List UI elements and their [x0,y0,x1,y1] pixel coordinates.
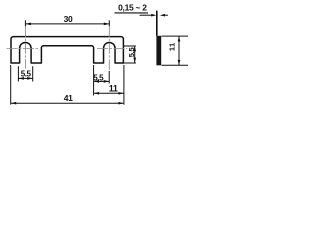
centerline vertical right slot [108,26,110,70]
centerline horizontal right slot [97,48,127,50]
dimension 5.5 (right foot, step to slot centre) [93,65,109,96]
dimension 0,15~2 (thickness) [115,3,169,36]
side view bar (strip thickness) [156,36,161,66]
svg-text:0,15 ~ 2: 0,15 ~ 2 [118,3,147,13]
svg-text:5.5: 5.5 [21,70,32,79]
svg-text:11: 11 [109,83,118,93]
dimension 30 (slot centres spacing) [25,14,109,26]
dimension 11 (side view height) [162,36,189,65]
svg-text:41: 41 [64,93,73,103]
dimension 11 (right foot width) [94,65,124,105]
dimension 41 (overall length) [11,65,124,105]
svg-text:30: 30 [64,14,73,24]
part outline front view (strip fuse with two slotted feet) [11,37,123,63]
svg-text:5.5: 5.5 [93,74,104,83]
centerline vertical left slot [24,26,26,68]
dimension 5.5 vertical (right of front view, leg height) [123,46,136,63]
centerline horizontal left slot [7,48,39,50]
svg-text:11: 11 [167,43,176,52]
dimension 5.5 (left slot width) [18,66,32,81]
svg-text:5.5: 5.5 [127,47,136,57]
